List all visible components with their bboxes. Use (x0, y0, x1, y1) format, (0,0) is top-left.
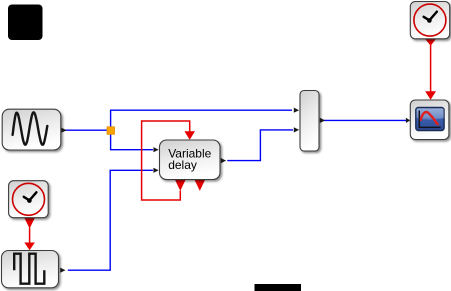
variable delay block U4 (160, 140, 221, 180)
output port of U7 (320, 118, 325, 123)
red event link E2: arrowhead into pulse U3 top (24, 243, 35, 251)
scope block U6 (410, 100, 449, 140)
wire W2: junction up then right to mux input 1 (111, 110, 292, 127)
wire W1: sine output to junction node (64, 129, 107, 131)
sine icon of U1 (13, 112, 48, 144)
input port 1 of U7 (294, 108, 299, 113)
red event link E2: shaft clock U2 to pulse U3 (29, 228, 31, 244)
red event link E2: clock U2 output port triangle (24, 218, 35, 229)
delay U4 event output port 2 triangle (unconnected) (195, 180, 206, 191)
input port of U6 (406, 118, 410, 123)
delay U4 event output port 1 triangle (175, 180, 186, 191)
input port 2 of U4 (153, 168, 158, 173)
red event link E1: shaft clock U5 to scope U6 (430, 45, 432, 92)
input port 1 of U4 (153, 147, 158, 152)
pulse generator block U3 (2, 251, 59, 288)
sine source block U1 (2, 109, 61, 150)
square-wave icon of U3 (14, 254, 44, 284)
mux block U7 (tall narrow) (300, 91, 319, 152)
input port 2 of U7 (294, 127, 299, 132)
clock block U2 (lower-left) (9, 181, 49, 218)
scope U6 red trace (421, 112, 438, 124)
red event link E1: clock U5 output port triangle (425, 39, 436, 46)
black strip annotation (bottom, clipped by image edge) (255, 284, 302, 291)
clock U5 red dial circle (414, 4, 446, 36)
output port of U4 (221, 158, 226, 163)
wire W4: pulse output up to delay input 2 (68, 170, 153, 270)
scope U6 trace arrowhead (435, 121, 440, 125)
clock block U5 (top-right) (410, 2, 449, 39)
red event link E3: delay self-loop wire (142, 121, 190, 200)
wire W3: junction down then right to delay input 1 (111, 134, 153, 149)
svg-text:delay: delay (168, 158, 197, 172)
clock U2 red dial circle (13, 183, 45, 215)
clock U2 hands (29, 192, 36, 200)
red event link E1: arrowhead into scope U6 top (425, 91, 436, 99)
output port of U1 (61, 128, 66, 133)
red event link E3: arrowhead into delay U4 top (184, 131, 195, 140)
black block B1 (top-left solid black square) (8, 5, 43, 41)
scope U6 screen gloss (417, 109, 445, 120)
junction node J1 (orange split square) (107, 127, 115, 135)
clock U5 hands (429, 12, 437, 21)
wire W5: delay output to mux input 2 (227, 130, 293, 161)
wire W6: mux output to scope input (324, 119, 407, 121)
scope U6 screen (416, 108, 444, 131)
output port of U3 (60, 268, 65, 273)
scope U6 axes (419, 111, 440, 128)
